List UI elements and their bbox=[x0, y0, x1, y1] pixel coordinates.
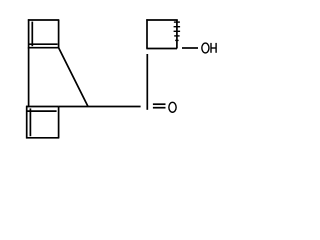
wire: bond ring A bottom-left down to ring B bbox=[28, 48, 30, 107]
ring B bottom edge bbox=[26, 137, 59, 139]
ring B right edge bbox=[58, 107, 60, 138]
wire: bond ring C bottom-left down to carbonyl carbon bbox=[146, 54, 148, 110]
ring B top edge bbox=[26, 106, 59, 108]
ring C right edge (stereo bond line) bbox=[176, 20, 178, 49]
ring B left edge bbox=[26, 106, 28, 139]
OH label bbox=[202, 43, 216, 53]
wire: diagonal bond ring A bottom-right to chain CH bbox=[59, 48, 88, 107]
ring A left edge bbox=[28, 19, 30, 48]
ring A (top-left cyclobutadiene) bbox=[28, 19, 59, 48]
ring B double bond inner horizontal bbox=[27, 110, 56, 112]
ring B double bond inner vertical bbox=[29, 108, 31, 136]
wire: chain horizontal bond to carbonyl bbox=[59, 106, 141, 108]
ring C bottom edge bbox=[146, 48, 177, 50]
hashed stereo bond marks on ring C right edge bbox=[174, 22, 181, 40]
C=O double bond bbox=[153, 104, 166, 108]
ring C (top-right cyclobutane) bbox=[146, 19, 178, 48]
wire: bond ring C to hydroxyl bbox=[182, 47, 198, 49]
ring C top edge bbox=[146, 19, 178, 21]
ring B (bottom-left cyclobutadiene) bbox=[26, 106, 59, 139]
ring A double bond inner vertical bbox=[31, 22, 33, 47]
ring A bottom edge bbox=[28, 47, 59, 49]
O label of carbonyl bbox=[169, 102, 176, 112]
ring A double bond inner horizontal bbox=[29, 43, 57, 45]
ring C left edge bbox=[146, 19, 148, 48]
ring A right edge bbox=[58, 20, 60, 48]
ring A top edge bbox=[28, 19, 59, 21]
